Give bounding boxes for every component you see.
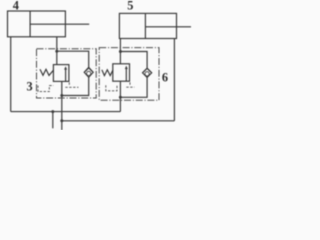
junction dot: branch A bottom bbox=[60, 94, 63, 97]
svg-text:6: 6 bbox=[162, 71, 168, 85]
wire: cylinder 5 left port down to valve 6 bbox=[119, 39, 121, 64]
wire: line B to right bbox=[62, 120, 175, 122]
cylinder 5 piston bbox=[144, 13, 146, 38]
valve 6 arrowhead bbox=[125, 66, 128, 69]
valve 6 pilot dashes (right of bottom port) bbox=[126, 82, 134, 87]
valve 6 pilot dashes (U below spring) bbox=[106, 85, 117, 91]
wire: cylinder 4 left port down bbox=[10, 37, 12, 112]
valve 3 pilot dashes (right of bottom port) bbox=[65, 82, 78, 87]
check valve diamond A bbox=[84, 67, 93, 77]
wire: line A bottom left rail bbox=[11, 111, 121, 113]
valve 3 body bbox=[53, 65, 69, 82]
wire: check branch B bottom bbox=[120, 77, 147, 97]
svg-text:5: 5 bbox=[127, 0, 133, 13]
chain-line enclosure box 3 bbox=[37, 49, 97, 98]
check valve diamond B bbox=[143, 68, 152, 77]
cylinder 4 piston bbox=[29, 11, 31, 37]
check valve A ball and seat bbox=[85, 68, 92, 75]
valve 6 flow arrow bbox=[125, 68, 127, 82]
wire: check branch A bottom bbox=[62, 77, 89, 95]
svg-text:4: 4 bbox=[13, 0, 19, 12]
wire: cylinder 4 right port down to valve 3 bbox=[56, 37, 58, 65]
valve 3 pilot dashes (U below spring) bbox=[38, 85, 54, 91]
chain-line enclosure box 6 bbox=[99, 48, 159, 101]
cylinder 5 body bbox=[119, 13, 176, 38]
valve 6 spring bbox=[102, 70, 113, 76]
junction dot: cyl4 port / branch A bbox=[55, 50, 58, 53]
valve 3 arrowhead bbox=[64, 66, 67, 69]
valve 6 body bbox=[113, 64, 130, 81]
wire: check branch B top bbox=[120, 52, 147, 69]
wire: valve 3 bottom port down bbox=[61, 81, 63, 130]
check valve B ball and seat bbox=[144, 69, 151, 76]
cylinder 4 body bbox=[8, 11, 66, 37]
wire: right rail up to cylinder 5 right port bbox=[173, 39, 175, 121]
junction dot: cyl5 port / branch B bbox=[119, 50, 122, 53]
wire: branch stub V1 down bbox=[52, 112, 54, 129]
junction dot: D1 on line A bbox=[51, 110, 54, 113]
wire: line A up to valve 6 bottom port bbox=[119, 81, 121, 111]
svg-text:3: 3 bbox=[27, 79, 33, 93]
cylinder 4 rod bbox=[30, 23, 89, 25]
junction dot: branch B bottom bbox=[119, 96, 122, 99]
wire: check branch A top bbox=[57, 51, 89, 67]
cylinder 5 rod bbox=[145, 26, 191, 28]
valve 3 flow arrow bbox=[65, 68, 67, 81]
junction dot: D2 on line B bbox=[60, 119, 63, 122]
valve 3 spring bbox=[40, 69, 53, 75]
